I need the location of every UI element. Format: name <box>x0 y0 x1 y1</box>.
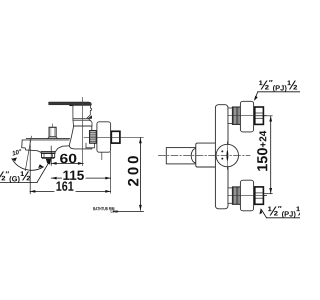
dim 115 <box>51 177 110 179</box>
bottom connection knurled nut <box>232 187 240 204</box>
angle 10 deg tilted line <box>25 136 31 170</box>
handle base block <box>73 105 92 119</box>
bottom connection centerline <box>228 195 267 197</box>
dim 200 vertical <box>113 138 144 212</box>
dim 161 <box>30 141 111 194</box>
top connection collar <box>228 108 232 123</box>
wall pipe hex <box>111 131 120 143</box>
body circle <box>216 144 238 166</box>
bottom connection hex <box>255 187 264 204</box>
svg-text:60: 60 <box>60 151 78 166</box>
s-union knurled nut <box>90 131 97 144</box>
svg-text:LINE: LINE <box>110 210 118 214</box>
body under-shelf <box>86 143 94 148</box>
top connection centerline <box>228 115 267 117</box>
handle lever bar <box>166 148 196 164</box>
handle base <box>196 143 223 167</box>
knob feet <box>48 137 58 139</box>
dim 150 vertical <box>256 116 272 194</box>
svg-text:½″(G)½: ½″(G)½ <box>0 168 31 183</box>
aerator rim <box>41 152 55 154</box>
top connection hex <box>255 107 264 124</box>
aerator mesh (dark) <box>46 159 52 164</box>
diverter knob stem line <box>52 124 54 127</box>
svg-text:10°: 10° <box>11 147 23 157</box>
bottom connection collar <box>228 188 232 203</box>
lever underlip shadow <box>69 105 80 107</box>
top connection knurled nut <box>232 107 240 124</box>
svg-text:150+24: 150+24 <box>255 130 271 172</box>
top view centerline (dash-dot) <box>159 155 251 157</box>
front view centerline <box>81 97 83 165</box>
PJ top label leader <box>258 91 300 93</box>
svg-text:½″(PJ)½: ½″(PJ)½ <box>258 78 297 93</box>
bottom connection flange <box>240 180 253 211</box>
wall escutcheon flange <box>97 122 111 152</box>
angle arc <box>12 159 44 171</box>
lever joint ellipse <box>191 149 196 163</box>
pipe centerline <box>84 136 143 138</box>
wall face extension line <box>110 152 112 193</box>
spout <box>22 139 70 153</box>
svg-text:200: 200 <box>125 152 142 186</box>
top connection flange <box>240 101 253 132</box>
PJ bottom label leader <box>267 217 301 219</box>
circle dots <box>221 150 223 152</box>
svg-text:½″(PJ)½: ½″(PJ)½ <box>267 204 300 219</box>
diverter knob <box>49 127 56 137</box>
screw slot <box>227 151 228 161</box>
base dark wedge <box>87 115 92 119</box>
cartridge collar <box>73 119 92 126</box>
mounting slab <box>215 105 228 209</box>
dim 60 <box>51 146 83 165</box>
aerator bottom rim <box>42 157 54 160</box>
body main <box>69 126 92 149</box>
lever handle (dark bar) <box>49 102 92 105</box>
G label leader <box>0 182 37 184</box>
svg-text:161: 161 <box>56 179 74 194</box>
aerator hex <box>42 154 55 158</box>
